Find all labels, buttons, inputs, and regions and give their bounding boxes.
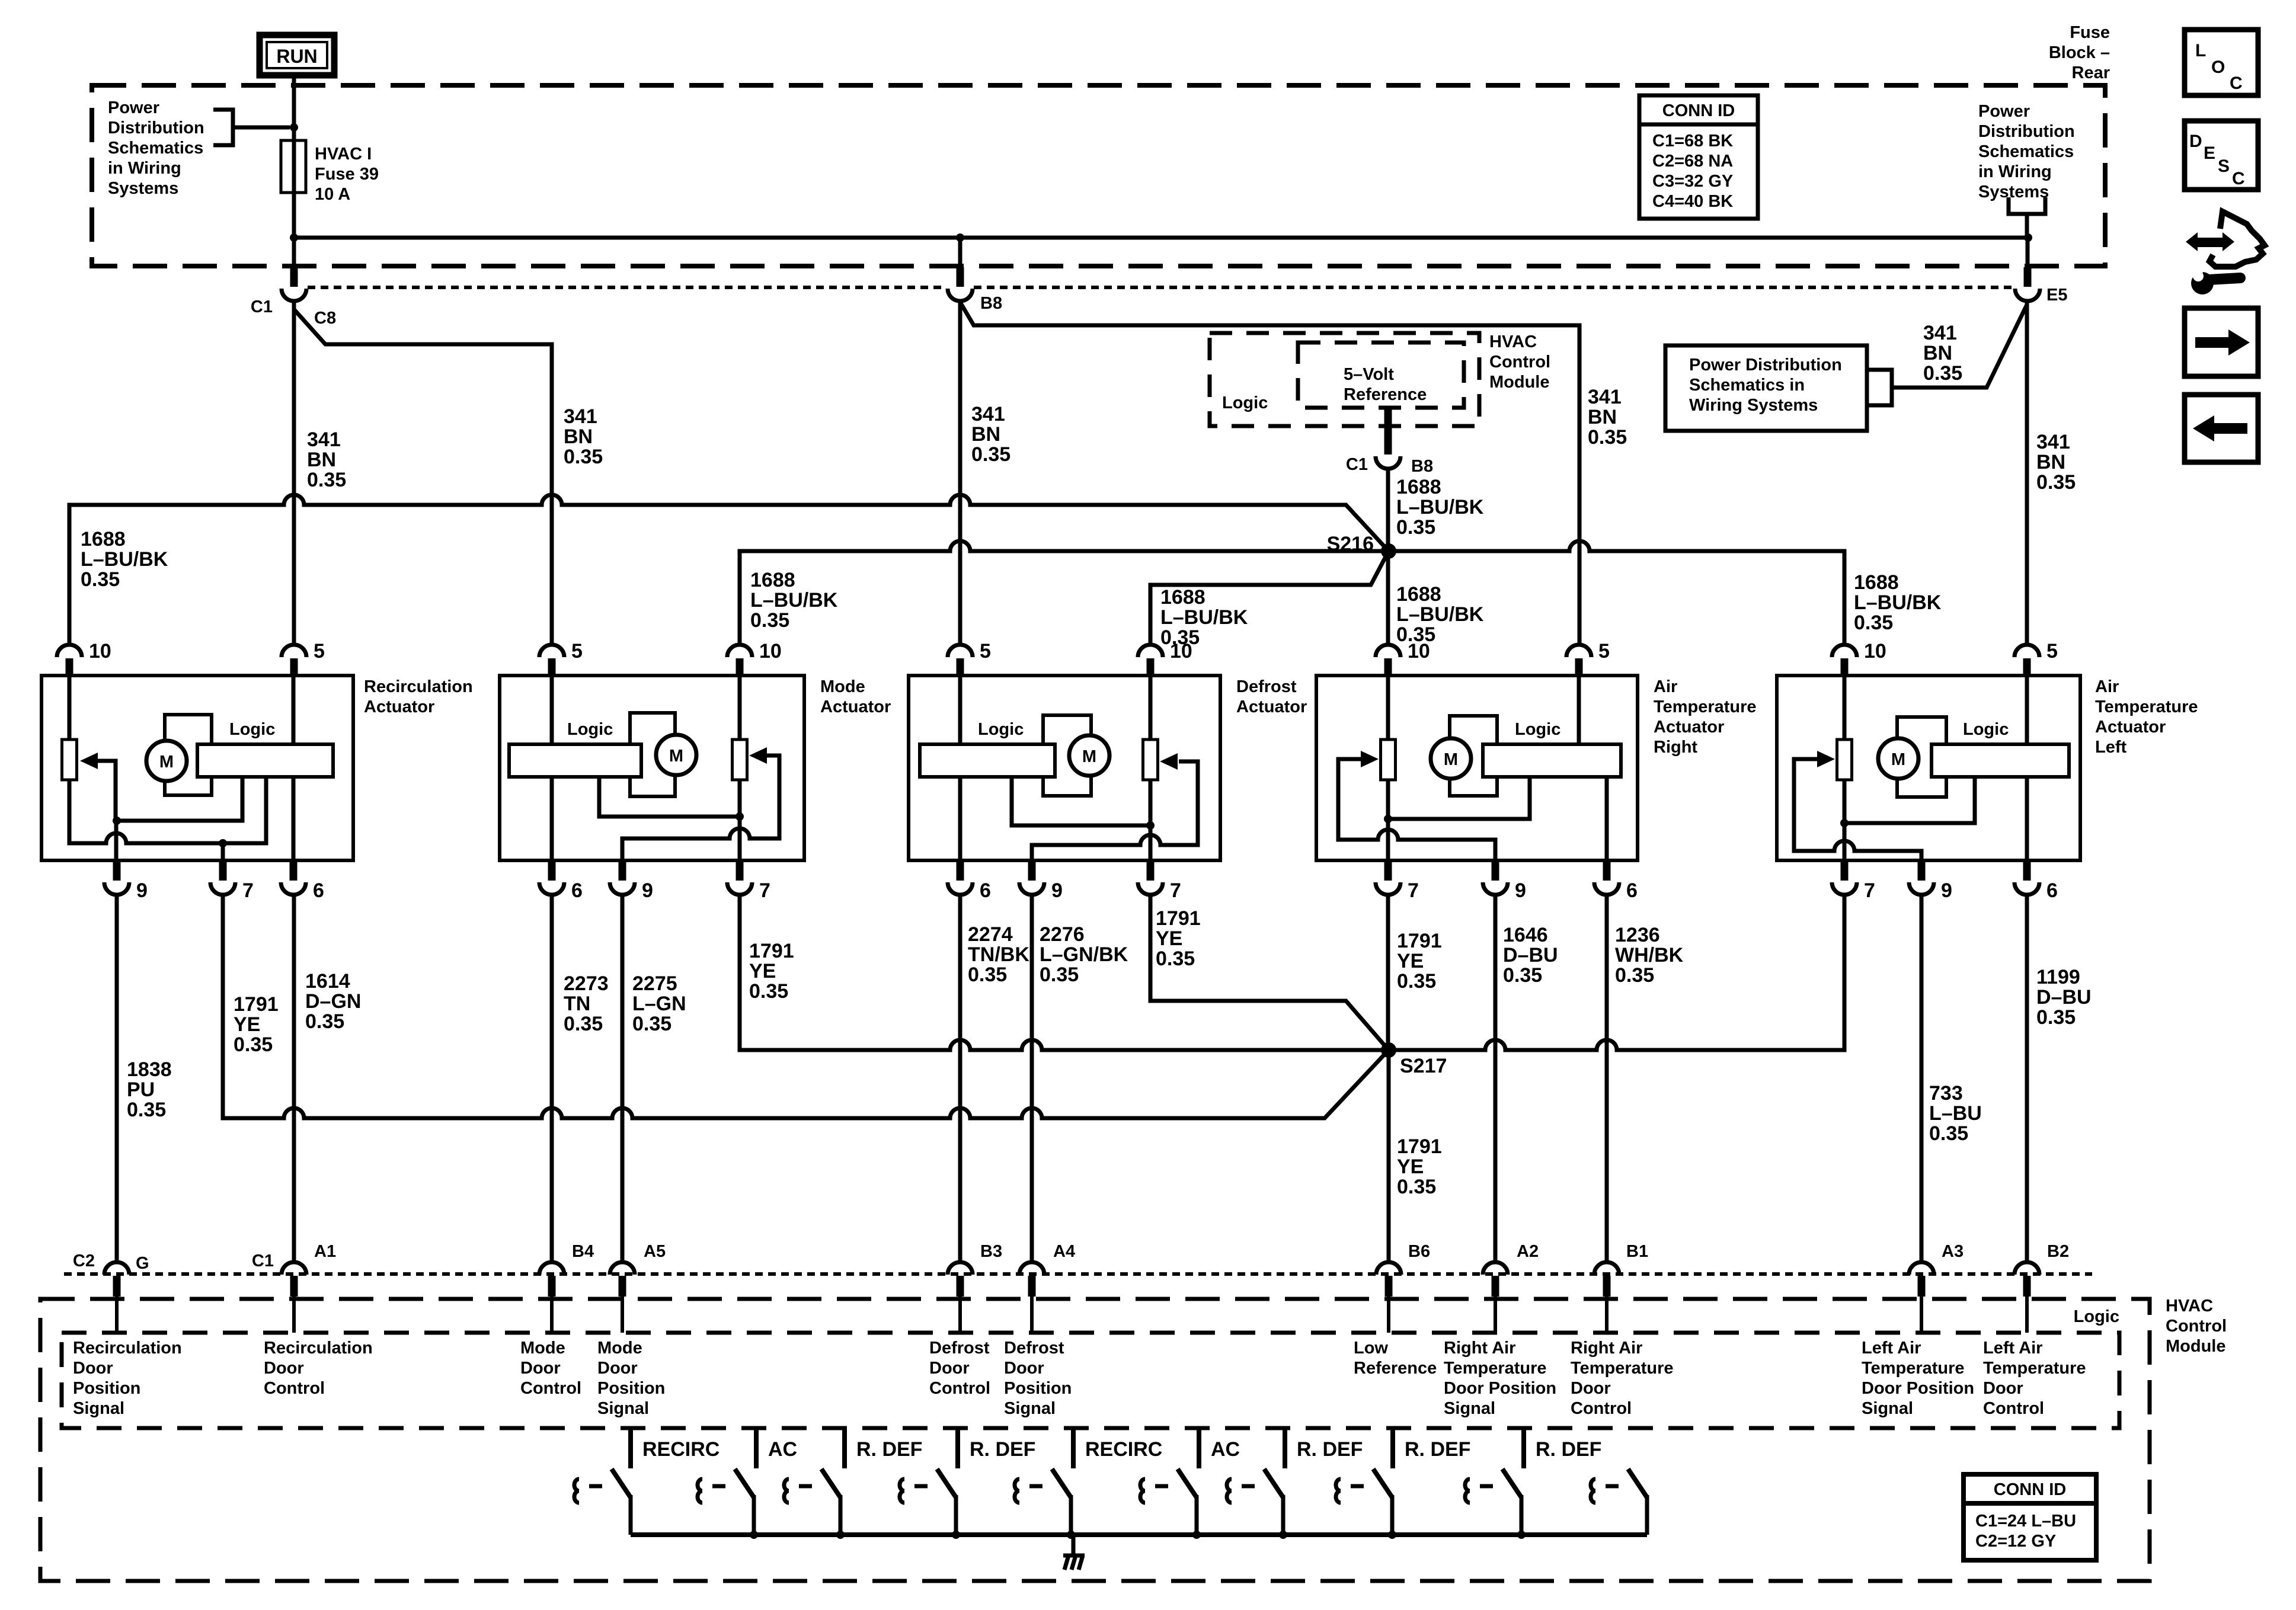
- wire pin10 to pot (Defrost): [1149, 677, 1153, 740]
- svg-text:A3: A3: [1942, 1242, 1964, 1261]
- wire logic to pin7 junction (Mode): [599, 774, 740, 817]
- wire bracket to E5 tap: [2025, 214, 2029, 236]
- connector Defrost pin 6: [948, 862, 973, 895]
- connector pin 5 Air Temp Right: [1566, 645, 1591, 676]
- wire pin7 junction to logic (ATR): [1388, 777, 1530, 819]
- wire logic to pin6 (ATR): [1605, 776, 1609, 862]
- wire pin5 to pin6 through logic (Mode): [550, 677, 554, 862]
- wire pot to pin7 (ATL): [1843, 780, 1847, 862]
- wiper arrow (ATR): [1361, 751, 1379, 767]
- wire 2274 TN/BK Defrost pin6 to B3: [958, 895, 962, 1260]
- svg-text:C: C: [2230, 73, 2243, 93]
- svg-text:10: 10: [1170, 640, 1192, 662]
- 5-Volt Reference dashed box: [1298, 343, 1464, 408]
- wire pin5 to logic (ATR): [1577, 677, 1581, 745]
- HVAC Control Module Logic dashed box: [1210, 333, 1479, 426]
- svg-text:Logic: Logic: [1963, 720, 2009, 739]
- svg-text:C2: C2: [73, 1251, 95, 1270]
- connector pin B1: [1594, 1262, 1619, 1333]
- sidebar forward arrow icon: [2185, 308, 2258, 376]
- connector C1 pin A1: [282, 1262, 306, 1333]
- wire 1614 D-GN pin6 to C1-A1: [292, 895, 296, 1260]
- svg-text:RUN: RUN: [276, 46, 317, 67]
- connector Defrost pin 9: [1019, 862, 1044, 895]
- svg-text:S217: S217: [1400, 1055, 1447, 1077]
- switch cell separator at x=2571: [1521, 1429, 1526, 1468]
- svg-text:B2: B2: [2047, 1242, 2069, 1261]
- svg-text:R. DEF: R. DEF: [1536, 1438, 1601, 1461]
- motor M (Defrost): [1069, 735, 1109, 776]
- connector pin 10 Air Temp Left: [1832, 645, 1857, 676]
- wire switch common bus: [631, 1532, 1647, 1537]
- connector pin A2: [1483, 1262, 1508, 1333]
- switch RECIRC 1: [698, 1469, 754, 1535]
- switch AC 1: [784, 1469, 840, 1535]
- wire 341 BN C8 to Recirculation Actuator pin 5: [292, 301, 296, 645]
- wire 1791 YE ATR pin7 to S217: [1386, 895, 1390, 1050]
- svg-text:S: S: [2218, 156, 2230, 176]
- potentiometer (ATR): [1381, 740, 1396, 780]
- HVAC Control Module dashed box (bottom): [40, 1299, 2150, 1581]
- svg-text:S216: S216: [1327, 533, 1374, 555]
- wire logic to pin7 junction (Defrost): [1012, 777, 1150, 825]
- Recirculation Actuator box: [41, 676, 353, 860]
- svg-text:C8: C8: [314, 309, 336, 328]
- junction dot (Defrost pin7): [1146, 821, 1155, 830]
- wire pot to pin7 (ATR): [1386, 780, 1390, 862]
- connector pin B6: [1376, 1262, 1401, 1333]
- switch cell separator at x=2023: [1197, 1429, 1201, 1468]
- motor bracket (Defrost): [1043, 715, 1091, 796]
- dotted in-line connector row (bottom): [64, 1272, 2092, 1276]
- wire 1688 S216 to Defrost pin 10: [1150, 551, 1389, 645]
- ignition feed RUN box: [260, 35, 334, 75]
- bracket to Power Distribution note (left): [213, 110, 233, 145]
- svg-text:5: 5: [2046, 640, 2058, 662]
- svg-text:D: D: [2189, 132, 2202, 151]
- wire pin10 to pot (Mode): [738, 677, 742, 740]
- connector pin A5: [610, 1262, 635, 1333]
- wire fuse bus to B8 stub: [958, 238, 962, 268]
- svg-text:6: 6: [313, 879, 324, 902]
- wire 1688 S216 to Air Temp Left pin 10: [1389, 541, 1844, 645]
- potentiometer (ATL): [1837, 740, 1852, 780]
- switch R.DEF 5: [1591, 1469, 1647, 1535]
- dotted in-line connector row (top): [308, 286, 2013, 289]
- wire 1688 B8 to S216: [1386, 469, 1390, 548]
- svg-text:Logic: Logic: [1222, 393, 1268, 412]
- svg-text:Logic: Logic: [1515, 720, 1560, 739]
- splice S217: [1381, 1042, 1396, 1058]
- wire 2273 TN Mode pin6 to B4: [550, 895, 554, 1260]
- switch cell separator at x=1811: [1071, 1429, 1076, 1468]
- svg-text:B3: B3: [980, 1242, 1002, 1261]
- svg-text:CONN ID: CONN ID: [1662, 101, 1735, 120]
- svg-text:7: 7: [1864, 879, 1875, 902]
- svg-text:A2: A2: [1517, 1242, 1539, 1261]
- wire pin10 to pot (ATR): [1386, 677, 1390, 740]
- sidebar back arrow icon: [2185, 395, 2258, 462]
- wire 1236 WH/BK ATR pin6 to B1: [1605, 895, 1609, 1260]
- connector C1 pin C8: [282, 267, 306, 301]
- wire 733 L-BU ATL pin9 to A3: [1920, 895, 1924, 1260]
- svg-text:C1: C1: [252, 1251, 274, 1270]
- svg-text:M: M: [1891, 750, 1905, 769]
- svg-text:5: 5: [1598, 640, 1610, 662]
- junction dot bus at x=2567: [1517, 1531, 1526, 1539]
- wire bracket to RUN feed: [233, 126, 290, 130]
- svg-text:10: 10: [1864, 640, 1886, 662]
- fuse HVAC I Fuse 39 10A: [281, 140, 306, 193]
- svg-text:5: 5: [571, 640, 583, 662]
- connector pin B4: [539, 1262, 564, 1333]
- svg-text:B8: B8: [1411, 457, 1433, 476]
- connector ATL pin 9: [1909, 862, 1934, 895]
- bracket of power distribution reference box: [1867, 370, 1892, 405]
- svg-text:O: O: [2211, 57, 2225, 77]
- connector pin B8 (fuse block): [948, 267, 973, 301]
- wire wiper to pin9 (ATR): [1338, 759, 1495, 862]
- switch RECIRC 2: [1140, 1469, 1197, 1535]
- svg-text:C: C: [2232, 169, 2245, 188]
- connector ATR pin 6: [1594, 862, 1619, 895]
- wiper arrow (Recirc): [80, 753, 98, 769]
- svg-text:A5: A5: [644, 1242, 666, 1261]
- svg-text:7: 7: [759, 879, 770, 902]
- connector pin 10 Recirculation Actuator: [57, 645, 82, 676]
- sidebar DESC icon: [2185, 121, 2258, 190]
- connector Mode pin 6: [539, 862, 564, 895]
- svg-text:B4: B4: [572, 1242, 594, 1261]
- wiper arrow (Mode): [749, 747, 767, 764]
- wire 1791 YE Defrost pin7 to S217: [1150, 895, 1389, 1050]
- svg-text:R. DEF: R. DEF: [856, 1438, 922, 1461]
- connector Mode pin 7: [727, 862, 752, 895]
- junction dot bus at x=2019: [1192, 1531, 1201, 1539]
- svg-text:9: 9: [1941, 879, 1952, 902]
- Mode Actuator box: [500, 676, 804, 860]
- junction dot at B8 tap: [956, 233, 964, 242]
- Defrost Actuator box: [909, 676, 1220, 860]
- connector pin 10 Mode Actuator: [727, 645, 752, 676]
- junction dot fuse output: [290, 233, 298, 242]
- potentiometer (Defrost): [1143, 740, 1158, 780]
- junction dot bus at x=2349: [1388, 1531, 1396, 1539]
- svg-text:RECIRC: RECIRC: [1085, 1438, 1162, 1461]
- wiper arrow (Defrost): [1160, 753, 1178, 770]
- junction dot bus at x=1272: [750, 1531, 758, 1539]
- junction dot (Recirc pin9): [113, 817, 121, 825]
- switch cell separator at x=2168: [1283, 1429, 1287, 1468]
- wire 1688 S216 to Mode pin 10: [740, 541, 1389, 645]
- switch AC 2: [1227, 1469, 1283, 1535]
- connector ATL pin 7: [1832, 862, 1857, 895]
- wire wiper to pin9 (ATL): [1794, 759, 1921, 862]
- svg-text:A1: A1: [314, 1242, 336, 1261]
- junction dot bus at x=2165: [1279, 1531, 1287, 1539]
- connector Defrost pin 7: [1138, 862, 1163, 895]
- svg-text:6: 6: [2046, 879, 2058, 902]
- motor M (ATR): [1431, 738, 1471, 779]
- wire 1688 S216 to Air Temp Right pin 10: [1386, 551, 1390, 645]
- connector ATR pin 7: [1376, 862, 1400, 895]
- svg-text:M: M: [1444, 750, 1458, 769]
- svg-text:9: 9: [136, 879, 148, 902]
- junction dot at E5 tap: [2024, 233, 2032, 242]
- motor bracket (Recirc): [165, 715, 212, 795]
- svg-text:R. DEF: R. DEF: [970, 1438, 1035, 1461]
- junction dot bus at x=1807: [1067, 1531, 1075, 1539]
- wire RUN to fuse and connector C8: [292, 78, 296, 267]
- connector pin 5 Mode Actuator: [539, 645, 564, 676]
- wire 1791 YE Recirc pin7 to S217: [223, 895, 1389, 1118]
- connector C1 pin B8 (module 5V ref): [1376, 409, 1400, 469]
- switch R.DEF 1: [900, 1469, 956, 1535]
- connector ATR pin 9: [1483, 862, 1508, 895]
- wire pin9 to wiper (Mode): [622, 756, 779, 862]
- svg-text:A4: A4: [1053, 1242, 1075, 1261]
- junction dot (Recirc pin7): [219, 839, 227, 847]
- svg-text:7: 7: [242, 879, 254, 902]
- svg-text:6: 6: [980, 879, 991, 902]
- wire 1791 YE ATL pin7 to S217: [1389, 895, 1844, 1050]
- connector pin E5 (fuse block): [2015, 267, 2040, 301]
- logic bar (Mode): [509, 744, 641, 777]
- switch cell separator at x=1616: [955, 1429, 960, 1468]
- wire 341 BN E5 to power distribution reference: [1892, 305, 2027, 388]
- connector pin 10 Air Temp Right: [1376, 645, 1400, 676]
- svg-text:RECIRC: RECIRC: [642, 1438, 720, 1461]
- svg-text:10: 10: [89, 640, 111, 662]
- wire 341 BN B8 to Defrost Actuator pin 5: [958, 301, 962, 645]
- connector Mode pin 9: [610, 862, 635, 895]
- splice S216: [1381, 543, 1396, 559]
- motor bracket (ATR): [1450, 716, 1497, 796]
- wire pin5 to pin6 through logic (ATL): [2025, 677, 2029, 862]
- wire pin9 to wiper (Defrost): [1032, 761, 1198, 862]
- connector pin A3: [1909, 1262, 1934, 1333]
- switch cell separator at x=1276: [754, 1429, 759, 1468]
- svg-text:L: L: [2195, 41, 2206, 60]
- logic bar (ATL): [1932, 744, 2069, 777]
- svg-text:7: 7: [1408, 879, 1419, 902]
- ground G: [1063, 1535, 1085, 1570]
- wire 1199 D-BU ATL pin6 to B2: [2025, 895, 2029, 1260]
- motor M (Mode): [656, 735, 696, 775]
- sidebar LOC icon: [2185, 30, 2258, 95]
- svg-text:9: 9: [1051, 879, 1063, 902]
- wire 2276 L-GN/BK Defrost pin9 to A4: [1030, 895, 1034, 1260]
- wire 341 BN branch to Air Temp Right pin 5: [960, 302, 1579, 645]
- Logic dashed box (bottom module): [62, 1333, 2119, 1428]
- motor M (ATL): [1878, 738, 1918, 779]
- motor bracket (Mode): [630, 713, 675, 796]
- Power Distribution Schematics reference box (right): [1665, 345, 1867, 431]
- svg-text:B6: B6: [1408, 1242, 1430, 1261]
- bracket under right Power Distribution note: [2009, 197, 2045, 214]
- svg-text:C1: C1: [251, 297, 273, 316]
- connector pin B2: [2014, 1262, 2039, 1333]
- wire pin9 to logic (Recirc): [116, 777, 242, 862]
- wire 2275 L-GN Mode pin9 to A5: [621, 895, 625, 1260]
- svg-text:Logic: Logic: [567, 720, 613, 739]
- wire pot bottom to logic (Recirc): [69, 777, 266, 843]
- svg-text:C1: C1: [1346, 455, 1368, 474]
- svg-text:CONN ID: CONN ID: [1994, 1480, 2066, 1499]
- connector pin B3: [948, 1262, 973, 1333]
- svg-text:R. DEF: R. DEF: [1405, 1438, 1470, 1461]
- svg-text:9: 9: [1515, 879, 1526, 902]
- wire pot to pin7 (Mode): [738, 780, 742, 862]
- svg-text:M: M: [1082, 747, 1096, 766]
- junction dot bus at x=1418: [836, 1531, 845, 1539]
- wire pin7 junction to logic (ATL): [1844, 777, 1975, 823]
- svg-text:9: 9: [642, 879, 653, 902]
- connector C2 pin G: [104, 1262, 129, 1333]
- switch cell separator at x=2350: [1390, 1429, 1395, 1468]
- connector Recirc pin 7: [210, 862, 235, 895]
- potentiometer (Mode): [733, 740, 747, 780]
- svg-text:M: M: [159, 753, 174, 772]
- connector pin 5 Air Temp Left: [2014, 645, 2039, 676]
- junction dot (ATR pin7): [1384, 815, 1392, 823]
- switch R.DEF 3: [1336, 1469, 1392, 1535]
- connector pin 5 Defrost Actuator: [948, 645, 973, 676]
- svg-text:E5: E5: [2046, 286, 2067, 305]
- svg-text:10: 10: [759, 640, 782, 662]
- connector pin 10 Defrost Actuator: [1138, 645, 1163, 676]
- junction dot (ATL pin7): [1840, 819, 1849, 827]
- wire pin10 to pot (Recirc): [68, 677, 72, 740]
- switch cell separator at x=1425: [842, 1429, 847, 1468]
- wire junction to pin7 (Recirc): [221, 843, 225, 862]
- logic bar (ATR): [1483, 744, 1621, 777]
- svg-text:6: 6: [1626, 879, 1638, 902]
- svg-text:Logic: Logic: [2074, 1307, 2119, 1326]
- svg-text:6: 6: [571, 879, 583, 902]
- wire 1646 D-BU ATR pin9 to A2: [1494, 895, 1498, 1260]
- svg-text:G: G: [136, 1254, 149, 1273]
- junction dot (Mode pin7): [736, 812, 744, 821]
- logic bar (Defrost): [920, 744, 1055, 777]
- svg-text:Logic: Logic: [978, 720, 1024, 739]
- svg-text:E: E: [2204, 143, 2215, 163]
- CONN ID table (module): [1964, 1474, 2096, 1560]
- connector Recirc pin 6: [281, 862, 306, 895]
- svg-text:M: M: [669, 747, 683, 766]
- switch sw0: [574, 1469, 631, 1535]
- svg-text:5: 5: [314, 640, 325, 662]
- junction dot at power distribution tap: [290, 123, 298, 132]
- wire wiper arm (Recirc): [97, 761, 116, 821]
- motor bracket (ATL): [1897, 717, 1946, 797]
- junction dot bus at x=1613: [952, 1531, 960, 1539]
- potentiometer (Recirc): [62, 740, 77, 780]
- switch cell separator at x=1064: [628, 1429, 633, 1468]
- wiper arrow (ATL): [1817, 751, 1835, 767]
- svg-text:R. DEF: R. DEF: [1297, 1438, 1363, 1461]
- connector Recirc pin 9: [104, 862, 129, 895]
- wire 341 BN E5 to Air Temp Left pin 5: [2025, 301, 2029, 645]
- sidebar diagnostic icon (arrows and wrench): [2186, 212, 2265, 295]
- svg-text:7: 7: [1170, 879, 1181, 902]
- switch R.DEF 4: [1465, 1469, 1521, 1535]
- svg-text:Logic: Logic: [229, 720, 275, 739]
- Air Temperature Actuator Left box: [1777, 676, 2080, 860]
- svg-text:B8: B8: [980, 294, 1002, 313]
- svg-text:10: 10: [1408, 640, 1430, 662]
- svg-text:B1: B1: [1626, 1242, 1648, 1261]
- connector ATL pin 6: [2014, 862, 2039, 895]
- wire 341 BN power bus inside fuse block: [294, 236, 2028, 240]
- connector pin A4: [1019, 1262, 1044, 1333]
- wire pot to pin7 (Defrost): [1149, 780, 1153, 862]
- fuse block dashed box (Fuse Block - Rear): [92, 85, 2105, 266]
- svg-text:AC: AC: [768, 1438, 797, 1461]
- wire 1791 YE S217 to B6: [1387, 1050, 1391, 1260]
- wire fuse bus to E5 stub: [2026, 238, 2030, 268]
- wire pin5 to pin6 through logic (Defrost): [958, 677, 962, 862]
- wire 341 BN branch to Mode Actuator pin 5: [294, 309, 552, 645]
- wire 1791 YE Mode pin7 to S217: [740, 895, 1389, 1050]
- Air Temperature Actuator Right box: [1316, 676, 1638, 860]
- svg-text:5: 5: [980, 640, 991, 662]
- switch R.DEF 2: [1015, 1469, 1071, 1535]
- wire 1688 S216 to Recirculation pin 10: [69, 495, 1389, 645]
- wire pin10 to pot (ATL): [1843, 677, 1847, 740]
- connector pin 5 Recirculation Actuator: [282, 645, 306, 676]
- wire pin5 to pin6 through logic (Recirc): [292, 677, 296, 862]
- logic bar (Recirc): [197, 744, 333, 777]
- wire 1838 PU pin9 to C2-G: [115, 895, 119, 1260]
- motor M (Recirc): [146, 741, 187, 781]
- CONN ID table (fuse block): [1639, 95, 1758, 219]
- svg-text:AC: AC: [1211, 1438, 1240, 1461]
